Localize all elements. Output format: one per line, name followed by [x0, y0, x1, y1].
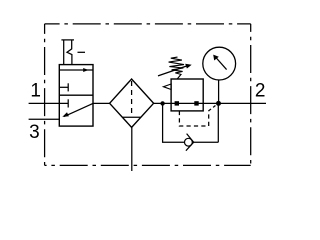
svg-text:1: 1: [30, 81, 41, 102]
svg-text:3: 3: [29, 122, 40, 143]
svg-text:2: 2: [255, 81, 266, 102]
